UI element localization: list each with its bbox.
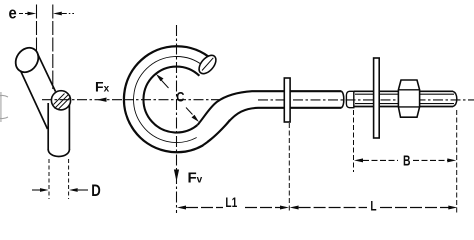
svg-text:L: L: [370, 198, 377, 214]
force Fv arrow: [174, 170, 179, 182]
threaded rod root lines: [355, 93, 454, 95]
svg-text:e: e: [9, 4, 17, 23]
tip ellipse axis line: [202, 58, 213, 71]
scan arc artifact left edge: [0, 95, 8, 118]
shank vertical cylinder (side view): [48, 95, 69, 157]
svg-text:L1: L1: [225, 194, 237, 210]
hook tip end ellipse: [11, 43, 43, 76]
horizontal centerline left (through section to hook): [42, 99, 124, 101]
hook tip side-view cylinder: [20, 52, 56, 130]
extension line e-right: [52, 5, 54, 90]
dimension L line: [290, 206, 299, 210]
hook curl highlight line: [134, 57, 203, 143]
sectioned rod cross-section (hatched circle): [51, 91, 70, 110]
S-curve lower outline: [203, 108, 342, 146]
dimension D left arrow: [32, 189, 41, 191]
B / L extension line right: [456, 110, 458, 213]
horizontal centerline through shank to right edge: [258, 99, 474, 101]
force Fx arrow: [97, 98, 107, 102]
svg-text:B: B: [403, 153, 411, 170]
S-curve rod to shank (white body): [198, 91, 342, 145]
hook tip end ellipse (main view): [196, 52, 219, 77]
B extension line left: [353, 110, 355, 172]
dimension B line: [354, 158, 363, 162]
plate at L1: [284, 78, 290, 122]
extension line e-left: [36, 5, 38, 53]
plate extension line: [288, 123, 290, 213]
hook curl outer arc: [124, 46, 212, 152]
hook horizontal centerline right portion: [124, 99, 223, 101]
svg-text:D: D: [91, 181, 101, 200]
rounded bottom cap: [48, 150, 69, 157]
thread neck piece: [346, 91, 353, 107]
dimension L1 line: [177, 206, 186, 210]
large washer: [374, 58, 380, 138]
hook vertical centerline: [176, 25, 178, 213]
S-curve highlight: [207, 120, 230, 142]
inner diameter dimension diagonal arrows: [158, 77, 169, 89]
dimension D extension lines: [48, 159, 50, 199]
threaded rod crest lines: [354, 90, 453, 92]
scan smudge left edge: [0, 92, 2, 122]
dimension D right arrow: [69, 188, 78, 192]
svg-text:C: C: [176, 88, 184, 104]
S-curve upper outline: [198, 91, 342, 125]
shank end cap: [342, 91, 344, 108]
dimension e right arrow: [53, 12, 62, 16]
rod rounded end: [453, 91, 457, 106]
dimension e left arrow: [19, 13, 28, 15]
hex nut: [398, 80, 419, 117]
hook curl inner arc: [143, 67, 199, 133]
